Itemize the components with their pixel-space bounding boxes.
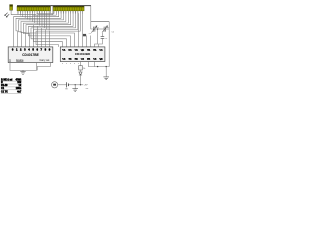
trimmer TC2 arrow: [102, 26, 108, 33]
wire U1 output 6 / U2 input: [29, 11, 74, 47]
svg-text:Carry out: Carry out: [40, 59, 50, 62]
wire LED column: [29, 11, 31, 21]
wire C2 leads: [102, 28, 104, 30]
trimmer TC1 arrow: [91, 26, 97, 33]
IC U2 CD4013BD: [60, 47, 105, 62]
svg-text:CD4017BE: CD4017BE: [22, 53, 39, 57]
circuit schematic: CD4017 LED chaser: [0, 0, 120, 100]
label C1 value: [96, 27, 99, 29]
svg-text:C1 TC: C1 TC: [1, 91, 8, 94]
wire U1 output 1: [16, 11, 61, 47]
LED bar row (outputs): [17, 6, 84, 11]
wire LED column: [43, 11, 45, 28]
wire top supply rail: [17, 5, 91, 7]
wire rail tap: [50, 6, 52, 14]
IC U1 CD4017BE: [8, 47, 53, 63]
label C3: [105, 38, 107, 40]
wire U1 pin riser: [45, 30, 47, 47]
wire U1 pin riser: [49, 31, 51, 47]
U1 bottom pin labels: [9, 59, 11, 62]
svg-text:100n: 100n: [16, 87, 22, 90]
wire U1 pin riser: [33, 25, 35, 47]
wire U1 output 3: [21, 11, 66, 47]
junction dot: [97, 66, 98, 67]
svg-text:4: 4: [62, 63, 63, 65]
wire U2 pin 9 riser: [95, 29, 98, 47]
wire U2 pin riser: [90, 36, 92, 47]
wire U1 pin riser: [41, 28, 43, 47]
diode D2: [79, 72, 82, 75]
wire bus line: [37, 11, 54, 14]
junction dot: [75, 84, 76, 85]
ground GND2: [103, 77, 109, 80]
wire LED column: [22, 11, 24, 17]
svg-text:1k: 1k: [83, 68, 85, 70]
U2 bottom pin labels: [62, 58, 103, 60]
junction label: [83, 34, 86, 36]
ground GND1: [20, 70, 25, 74]
wire U2 to R1: [80, 62, 82, 66]
wire C3 leads: [101, 33, 103, 37]
label R1 value: [83, 68, 85, 70]
wire U1 output 2: [19, 11, 64, 47]
wire LED column: [34, 11, 36, 23]
wire U1 output 7 / U2 input: [31, 11, 75, 47]
meter M1: [52, 82, 58, 88]
resistor R1: [79, 66, 83, 70]
wire LED column: [41, 11, 43, 27]
wire U2 pin riser: [82, 13, 84, 47]
wire LED column: [17, 11, 19, 14]
U1 pin numbers: [12, 47, 51, 51]
wire cap C1 feed: [91, 22, 93, 29]
wire LED column: [36, 11, 38, 24]
U2 top pin labels: [62, 50, 103, 52]
svg-text:4k7: 4k7: [106, 27, 109, 29]
junction dot: [80, 84, 81, 85]
wire smear segment: [38, 13, 53, 15]
battery B1: [67, 82, 69, 87]
wire rail tap: [52, 6, 54, 16]
wire battery to node: [69, 84, 83, 86]
wire U1 output 5 / U2 input: [26, 11, 75, 47]
wire LED column: [31, 11, 33, 22]
label U1 part number: [22, 53, 39, 57]
svg-text:8: 8: [74, 63, 75, 65]
svg-text:R NE-2 mi: R NE-2 mi: [1, 78, 13, 81]
svg-text:9V: 9V: [65, 88, 68, 90]
wire U1 pin riser: [37, 26, 39, 47]
wire bus line: [33, 11, 56, 15]
svg-text:C3: C3: [105, 38, 107, 40]
label B1 9V: [65, 88, 68, 90]
LED D1 emission arrows: [5, 13, 10, 17]
wire ground stem: [74, 85, 76, 89]
wire ground stem: [105, 67, 107, 77]
label C2 value: [106, 27, 109, 29]
wire U1 output 0: [14, 11, 59, 47]
wire U1 output 4: [24, 11, 69, 47]
svg-text:3: 3: [66, 63, 67, 65]
svg-text:6: 6: [70, 63, 71, 65]
label C1: [89, 33, 92, 35]
wire LED column: [46, 11, 48, 29]
svg-text:9: 9: [78, 63, 79, 65]
wire LED column: [48, 11, 50, 31]
LED row pin stubs: [18, 11, 83, 13]
wire LED column: [19, 11, 21, 16]
svg-text:+9V: +9V: [84, 84, 88, 86]
wire U1 output 8 / U2 input: [34, 11, 78, 47]
wire pin stub: [94, 62, 96, 67]
wire U2 pin riser: [78, 13, 80, 47]
junction dot: [106, 66, 107, 67]
LED D1: [10, 5, 13, 11]
wire U1 output 9 / U2 input: [36, 11, 80, 47]
wire right edge drop: [108, 22, 110, 67]
U2 pin numbers below: [62, 63, 79, 65]
svg-text:22k: 22k: [96, 27, 99, 29]
svg-text:C1: C1: [1, 87, 5, 90]
wire LED column: [24, 11, 26, 18]
wire carry out: [37, 63, 50, 71]
svg-text:4u7: 4u7: [17, 91, 22, 94]
capacitor C2: [104, 27, 106, 32]
wire U1 clock/enable to ground: [10, 63, 37, 71]
svg-text:C2: C2: [112, 31, 114, 33]
wire rail drop to oscillator: [90, 6, 92, 22]
capacitor C1: [93, 27, 95, 32]
wire D2 down: [80, 75, 82, 85]
svg-text:CD4013BD: CD4013BD: [75, 52, 91, 56]
wire LED column: [39, 11, 41, 26]
ground GND3: [72, 89, 78, 92]
wire LED lead: [10, 10, 12, 15]
label battery: [86, 88, 89, 90]
wire U2 outputs to rail: [89, 62, 110, 67]
svg-text:0V: 0V: [86, 88, 89, 90]
label node 9V: [84, 84, 88, 86]
wire C1 to U2: [95, 28, 103, 30]
wire LED D1 net: [11, 14, 36, 16]
capacitor C3: [101, 37, 105, 39]
wire U2 pin riser: [86, 36, 88, 47]
parts list table: [1, 78, 22, 93]
wire LED column: [27, 11, 29, 19]
svg-text:C1: C1: [89, 33, 92, 35]
label U2 part number: [75, 52, 91, 56]
junction dot: [97, 28, 98, 29]
wire M1 to battery: [58, 84, 67, 86]
wire oscillator rail: [91, 21, 109, 23]
label C2: [112, 31, 114, 33]
wire R1 to D2: [80, 70, 82, 72]
